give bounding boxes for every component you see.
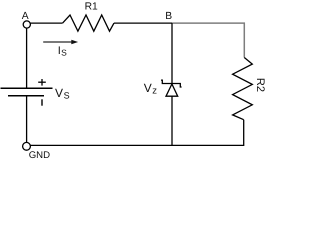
svg-text:R2: R2: [254, 78, 266, 92]
wire B to top-right corner (gray): [172, 23, 244, 57]
wire zener to bottom rail: [171, 96, 173, 145]
resistor R2: [233, 58, 253, 120]
battery VS bottom plate: [8, 95, 44, 97]
battery VS top plate: [1, 87, 53, 89]
wire R1 to B: [114, 22, 172, 24]
wire A to R1: [30, 22, 62, 24]
zener diode Vz triangle: [166, 84, 178, 96]
minus marker: [41, 99, 43, 105]
wire battery to GND node: [26, 96, 28, 142]
svg-text:R1: R1: [85, 2, 98, 13]
wire B down to zener: [171, 23, 173, 83]
wire R2 to bottom rail: [172, 120, 244, 146]
zener diode Vz cathode bar: [161, 80, 182, 87]
current arrow IS: [43, 40, 78, 44]
svg-text:IS: IS: [58, 45, 67, 57]
node A: [23, 21, 30, 28]
wire A down to battery: [26, 28, 28, 88]
bottom rail wire: [30, 144, 172, 146]
ground node: [23, 142, 31, 150]
resistor R1: [63, 15, 114, 31]
svg-text:B: B: [165, 11, 172, 22]
plus sign: [38, 79, 46, 86]
svg-text:GND: GND: [29, 150, 50, 160]
